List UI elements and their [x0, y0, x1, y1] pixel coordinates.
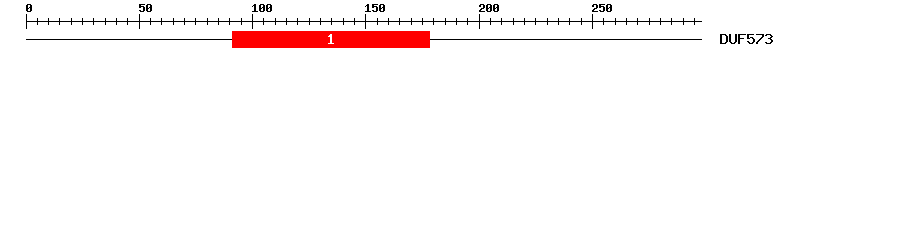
- ruler label digit 0: [27, 4, 31, 5]
- sequence line right segment: [430, 39, 702, 40]
- label char 5: [747, 34, 754, 35]
- label char U: [729, 34, 731, 35]
- label char F: [738, 34, 746, 35]
- ruler label digit 1: [367, 4, 369, 5]
- ruler major ticks (0,50,100,150,200,250): [26, 14, 27, 29]
- ruler label digit 0: [487, 4, 491, 5]
- ruler label digit 0: [607, 4, 611, 5]
- ruler label digit 0: [147, 4, 151, 5]
- ruler label digit 0: [267, 4, 271, 5]
- ruler label digit 5: [599, 4, 605, 5]
- label char 7: [756, 34, 764, 35]
- domain number 1 (white): [328, 34, 334, 44]
- ruler label digit 5: [372, 4, 378, 5]
- ruler label digit 0: [380, 4, 384, 5]
- sequence line left segment: [26, 39, 232, 40]
- ruler label digit 5: [139, 4, 145, 5]
- domain box 1 (red): [232, 31, 430, 48]
- ruler label digit 0: [494, 4, 498, 5]
- ruler minor ticks (every 5 aa): [37, 18, 38, 25]
- ruler label digit 1: [254, 4, 256, 5]
- ruler axis line: [26, 21, 702, 22]
- ruler label digit 2: [593, 4, 597, 5]
- label char 3: [766, 34, 771, 35]
- ruler label digit 2: [480, 4, 484, 5]
- label char D: [720, 34, 726, 35]
- background: [0, 0, 900, 58]
- ruler label digit 0: [260, 4, 264, 5]
